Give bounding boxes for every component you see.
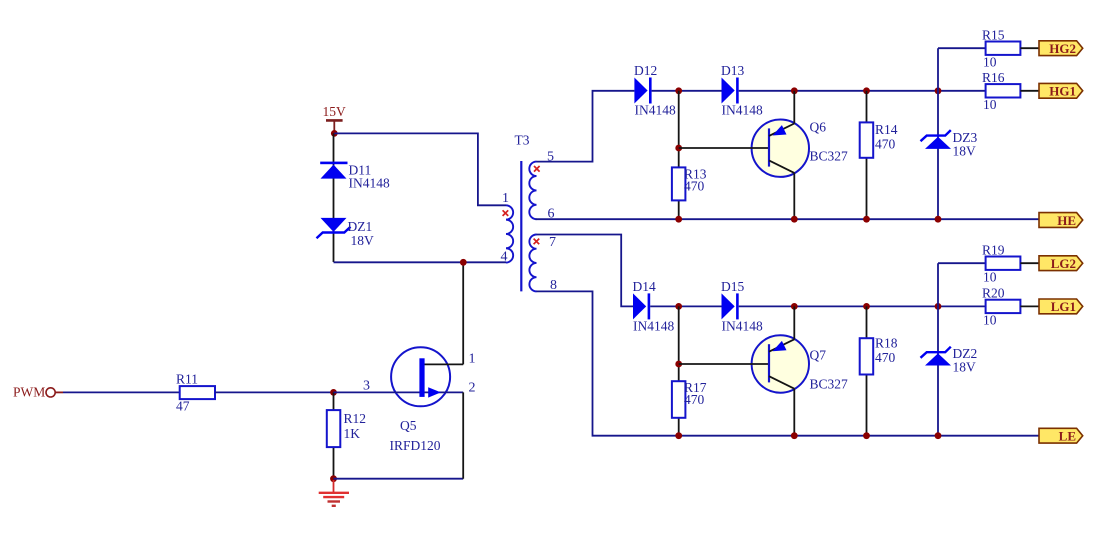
resistor R18 bbox=[860, 306, 898, 435]
transistor Q5 (MOSFET IRFD120) bbox=[334, 347, 464, 453]
svg-text:IN4148: IN4148 bbox=[633, 318, 674, 333]
node row A / D12-D13 junction bbox=[675, 87, 682, 94]
svg-text:470: 470 bbox=[684, 179, 705, 194]
svg-text:IN4148: IN4148 bbox=[722, 318, 763, 333]
transformer core bbox=[520, 161, 522, 291]
svg-text:IRFD120: IRFD120 bbox=[390, 438, 441, 453]
transformer primary winding (pins 1-4) bbox=[501, 191, 514, 265]
node LE row R17 junction bbox=[675, 432, 682, 439]
svg-text:BC327: BC327 bbox=[810, 377, 849, 392]
svg-text:R16: R16 bbox=[982, 70, 1005, 85]
resistor R19 bbox=[982, 243, 1020, 285]
wire pin4 row (DZ1 to transformer pin 4) bbox=[334, 261, 507, 263]
svg-text:18V: 18V bbox=[351, 233, 375, 248]
wire R19 to port LG2 bbox=[1020, 262, 1039, 264]
port HE bbox=[1039, 213, 1083, 228]
svg-text:18V: 18V bbox=[953, 144, 977, 159]
wire D12 to D13 bbox=[652, 90, 722, 92]
svg-text:LG2: LG2 bbox=[1051, 256, 1076, 271]
resistor R15 bbox=[982, 28, 1020, 70]
svg-text:D15: D15 bbox=[721, 279, 744, 294]
svg-text:Q5: Q5 bbox=[400, 418, 417, 433]
wire R11 to gate node bbox=[215, 391, 334, 393]
node LE row R18 junction bbox=[863, 432, 870, 439]
node row A R14 junction bbox=[863, 87, 870, 94]
resistor R12 bbox=[327, 392, 366, 478]
node HE row R13 junction bbox=[675, 216, 682, 223]
resistor R20 bbox=[982, 286, 1020, 328]
svg-text:3: 3 bbox=[363, 379, 370, 394]
node row A Q6 emitter junction bbox=[791, 87, 798, 94]
svg-text:Q7: Q7 bbox=[810, 348, 827, 363]
wire PWM to R11 bbox=[55, 391, 63, 393]
svg-text:HE: HE bbox=[1057, 213, 1076, 228]
wire 15V node down through D11/DZ1 branch bbox=[333, 133, 335, 262]
wire Q6 collector to HE row bbox=[793, 173, 795, 219]
svg-text:PWM: PWM bbox=[13, 385, 45, 400]
svg-text:R18: R18 bbox=[875, 336, 898, 351]
wire Q5 source down to ground row bbox=[462, 392, 464, 478]
zener DZ2 18V bbox=[921, 346, 978, 375]
node Q6 base junction bbox=[675, 145, 682, 152]
ground bbox=[319, 480, 349, 506]
node 15V junction bbox=[331, 130, 338, 137]
diode D12 IN4148 bbox=[634, 63, 676, 118]
diode D14 IN4148 bbox=[633, 279, 675, 333]
transformer secondary winding top (pins 5-6) bbox=[529, 150, 554, 222]
resistor R16 bbox=[982, 70, 1020, 112]
zener DZ3 18V bbox=[921, 130, 978, 159]
wire HE row (pin 6 to port HE) bbox=[536, 218, 1040, 220]
node row A DZ3 junction bbox=[935, 87, 942, 94]
transistor Q6 BC327 bbox=[679, 120, 848, 177]
svg-text:1: 1 bbox=[469, 352, 476, 367]
svg-text:D13: D13 bbox=[721, 63, 744, 78]
svg-text:10: 10 bbox=[983, 270, 997, 285]
wire Q5 drain up to pin4 node bbox=[462, 262, 464, 364]
diode D15 IN4148 bbox=[721, 279, 763, 333]
svg-text:R11: R11 bbox=[176, 372, 198, 387]
wire row A from D13 to R16 bbox=[739, 90, 986, 92]
node row B DZ2 junction bbox=[935, 303, 942, 310]
wire R17 column (row B down to LE row) bbox=[678, 306, 680, 435]
node gate junction bbox=[330, 389, 337, 396]
svg-text:DZ1: DZ1 bbox=[348, 219, 373, 234]
port PWM bbox=[13, 385, 55, 400]
wire pin8 / LE row to port LE bbox=[537, 291, 1040, 435]
node row B R18 junction bbox=[863, 303, 870, 310]
wire DZ2 column (R19 row down to LE row) bbox=[937, 263, 939, 436]
wire R15 branch bbox=[938, 47, 986, 49]
svg-text:4: 4 bbox=[501, 250, 508, 265]
port HG2 bbox=[1039, 41, 1083, 56]
node ground junction bbox=[330, 475, 337, 482]
svg-text:R19: R19 bbox=[982, 243, 1005, 258]
svg-text:470: 470 bbox=[684, 392, 705, 407]
svg-text:HG2: HG2 bbox=[1049, 41, 1076, 56]
wire pin7 to D14 anode (row B) bbox=[537, 235, 634, 307]
svg-text:HG1: HG1 bbox=[1049, 84, 1076, 99]
diode D11 IN4148 bbox=[320, 162, 390, 191]
svg-text:1: 1 bbox=[502, 191, 509, 206]
resistor R11 bbox=[176, 372, 215, 414]
power 15V bbox=[323, 104, 347, 133]
svg-text:10: 10 bbox=[983, 97, 997, 112]
svg-text:10: 10 bbox=[983, 313, 997, 328]
svg-text:IN4148: IN4148 bbox=[349, 176, 390, 191]
wire 15V node to transformer pin 1 bbox=[334, 133, 506, 205]
transistor Q7 BC327 bbox=[679, 335, 848, 392]
svg-text:2: 2 bbox=[469, 381, 476, 396]
resistor R14 bbox=[860, 91, 898, 219]
svg-text:47: 47 bbox=[176, 399, 190, 414]
transformer T3 bbox=[515, 133, 530, 148]
wire R13 column (row A down to HE row) bbox=[678, 91, 680, 219]
svg-text:T3: T3 bbox=[515, 133, 530, 148]
svg-text:IN4148: IN4148 bbox=[722, 103, 763, 118]
zener DZ1 18V bbox=[317, 218, 375, 248]
wire R20 to port LG1 bbox=[1020, 305, 1039, 307]
wire pin5 to D12 anode (row A) bbox=[537, 91, 635, 162]
svg-text:470: 470 bbox=[875, 350, 896, 365]
svg-text:15V: 15V bbox=[323, 104, 347, 119]
svg-text:R15: R15 bbox=[982, 28, 1005, 43]
wire ground row to Q5 source bbox=[334, 478, 464, 480]
node LE row DZ2 junction bbox=[935, 432, 942, 439]
wire Q7 emitter to row B bbox=[793, 306, 795, 339]
wire R19 branch bbox=[938, 262, 986, 264]
diode D13 IN4148 bbox=[721, 63, 763, 118]
svg-text:1K: 1K bbox=[344, 426, 361, 441]
svg-text:D12: D12 bbox=[634, 63, 657, 78]
port LE bbox=[1039, 428, 1083, 443]
svg-text:D14: D14 bbox=[633, 279, 656, 294]
wire Q7 collector to LE row bbox=[793, 389, 795, 436]
svg-text:7: 7 bbox=[549, 235, 556, 250]
wire R16 to port HG1 bbox=[1020, 90, 1039, 92]
resistor R17 bbox=[672, 380, 707, 418]
svg-text:470: 470 bbox=[875, 137, 896, 152]
svg-text:Q6: Q6 bbox=[810, 120, 827, 135]
port LG1 bbox=[1039, 299, 1083, 314]
node Q7 base junction bbox=[675, 361, 682, 368]
svg-text:R20: R20 bbox=[982, 286, 1005, 301]
node HE row Q6 collector junction bbox=[791, 216, 798, 223]
wire R15 to port HG2 bbox=[1020, 47, 1039, 49]
svg-text:10: 10 bbox=[983, 55, 997, 70]
node row B Q7 emitter junction bbox=[791, 303, 798, 310]
wire DZ3 column (R15 row down to HE row) bbox=[937, 48, 939, 219]
svg-text:R12: R12 bbox=[344, 411, 367, 426]
svg-text:BC327: BC327 bbox=[810, 149, 849, 164]
port LG2 bbox=[1039, 256, 1083, 271]
svg-text:IN4148: IN4148 bbox=[635, 103, 676, 118]
transformer secondary winding bottom (pins 7-8) bbox=[529, 235, 557, 293]
node LE row Q7 collector junction bbox=[791, 432, 798, 439]
svg-text:R14: R14 bbox=[875, 122, 898, 137]
node HE row DZ3 junction bbox=[935, 216, 942, 223]
wire Q6 emitter to row A bbox=[793, 91, 795, 124]
wire row B from D15 to R20 bbox=[739, 305, 986, 307]
resistor R13 bbox=[672, 167, 707, 201]
node HE row R14 junction bbox=[863, 216, 870, 223]
svg-text:18V: 18V bbox=[953, 360, 977, 375]
node pin4 junction bbox=[460, 259, 467, 266]
wire D14 to D15 bbox=[650, 305, 721, 307]
svg-text:LG1: LG1 bbox=[1051, 299, 1076, 314]
node row B D14-D15 junction bbox=[675, 303, 682, 310]
port HG1 bbox=[1039, 83, 1083, 98]
svg-text:LE: LE bbox=[1059, 429, 1076, 444]
